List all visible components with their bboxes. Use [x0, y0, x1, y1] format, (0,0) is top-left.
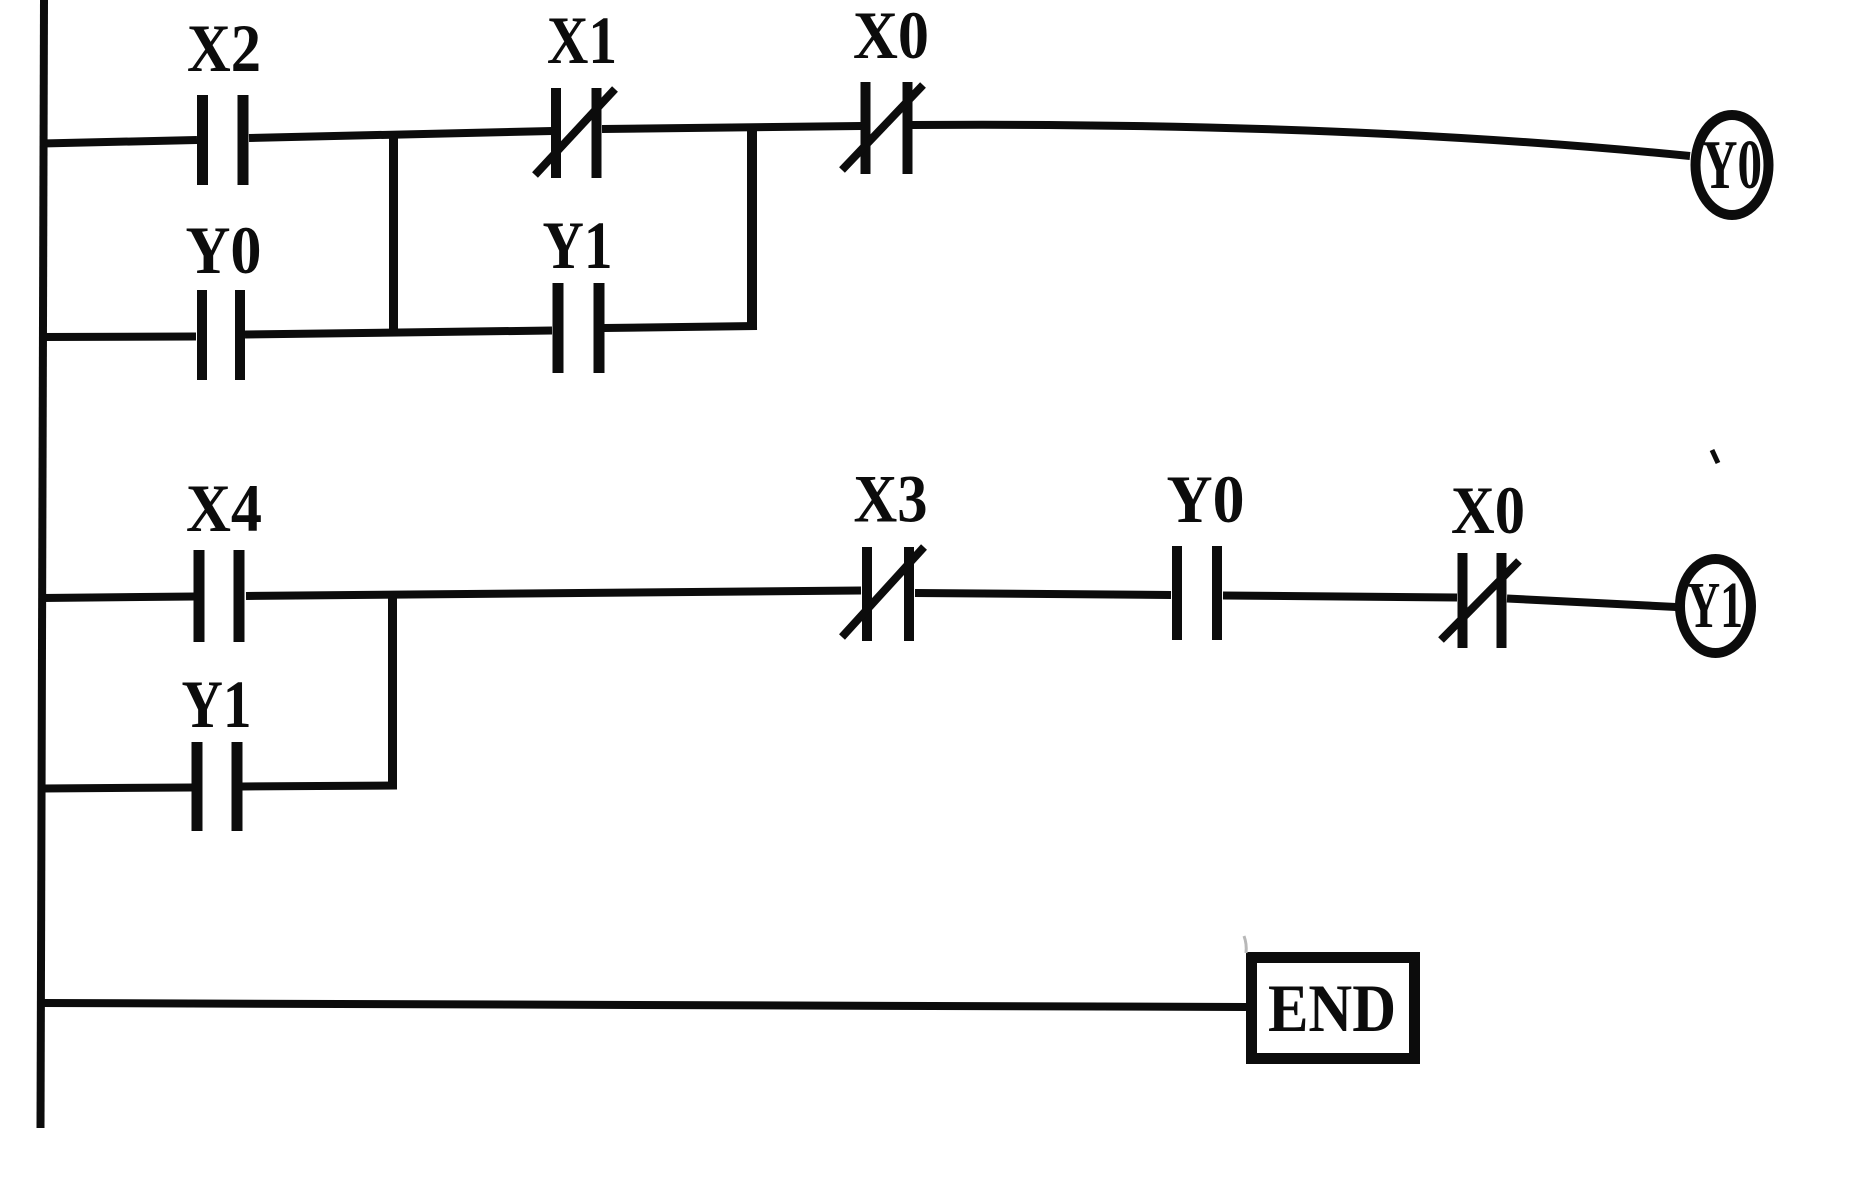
- coil Y1: [1680, 559, 1751, 653]
- svg-text:Y1: Y1: [1687, 569, 1743, 642]
- node C vertical wire (rung 2 branch junction): [388, 592, 397, 786]
- END block box: [1252, 958, 1415, 1059]
- wire: X1 to X0 through node B: [602, 126, 861, 129]
- contact Y1 (NO) rung 1 branch: [558, 283, 599, 373]
- wire: Y1 contact to node C: [242, 786, 397, 787]
- node B vertical wire (right end of parallel branch): [747, 125, 757, 326]
- svg-text:Y0: Y0: [186, 212, 262, 288]
- coil Y0: [1696, 115, 1769, 215]
- wire: rail to contact Y0 (rung1 branch): [42, 333, 196, 342]
- contact X4 (NO): [199, 550, 239, 642]
- contact X0 (NC) rung 1: [842, 82, 923, 174]
- svg-text:X2: X2: [187, 10, 261, 86]
- contact X2 (NO): [203, 95, 244, 185]
- wire: rail to contact X2: [42, 140, 197, 144]
- svg-text:X1: X1: [547, 2, 617, 78]
- wire: Y0 contact to X0 contact (rung 2): [1223, 596, 1457, 598]
- svg-text:X0: X0: [853, 0, 929, 73]
- contact Y0 (NO) rung 1 branch: [202, 290, 240, 380]
- contact Y1 (NO) rung 2 branch: [197, 742, 237, 831]
- svg-text:X3: X3: [854, 461, 928, 537]
- wire: X4 to X3 through node C: [246, 591, 861, 597]
- contact X1 (NC): [535, 88, 615, 178]
- wire: rail to END block (rung 3): [42, 1003, 1246, 1007]
- contact X0 (NC) rung 2: [1441, 553, 1519, 648]
- wire: Y0 contact to Y1 contact through node A: [245, 331, 552, 335]
- svg-text:X4: X4: [186, 470, 262, 546]
- svg-text:END: END: [1268, 970, 1396, 1046]
- svg-text:Y1: Y1: [543, 207, 613, 283]
- svg-text:Y0: Y0: [1702, 127, 1762, 204]
- contact X3 (NC): [842, 547, 924, 641]
- scan artifact faint smudge above END box: [1244, 936, 1246, 953]
- wire: X2 to X1 through node A: [249, 131, 552, 138]
- wire: Y1 contact to node B: [604, 326, 757, 328]
- scan artifact tick mark top right: [1712, 450, 1718, 463]
- wire: X0 to coil Y0: [912, 125, 1690, 156]
- svg-text:X0: X0: [1451, 472, 1525, 548]
- svg-text:Y0: Y0: [1167, 461, 1245, 537]
- node A vertical wire (parallel branch junction): [389, 131, 398, 334]
- wire: rail to contact Y1 (rung 2 branch): [42, 788, 192, 789]
- contact Y0 (NO) rung 2: [1177, 546, 1217, 640]
- left power rail: [41, 0, 45, 1128]
- wire: rail to contact X4 (rung 2): [42, 597, 195, 599]
- wire: X0 to coil Y1: [1507, 599, 1676, 608]
- wire: X3 to contact Y0 (rung 2): [915, 593, 1171, 595]
- svg-text:Y1: Y1: [182, 666, 252, 742]
